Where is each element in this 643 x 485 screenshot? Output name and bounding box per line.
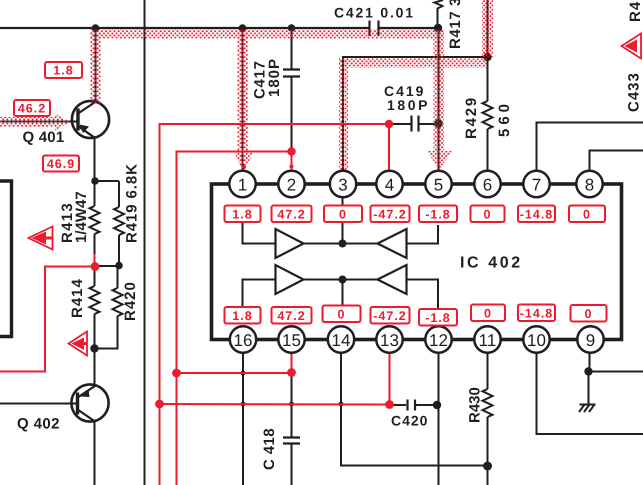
value label 46.9 <box>43 156 79 172</box>
value label 46.2 <box>14 100 50 116</box>
op-amp A3 <box>276 265 304 294</box>
value label pin15 47.2 <box>272 307 312 324</box>
value label pin14 0 <box>323 306 361 323</box>
svg-text:9: 9 <box>586 331 595 350</box>
svg-text:R419 6.8K: R419 6.8K <box>124 163 141 243</box>
red wire pin4 drop <box>388 124 390 171</box>
capacitor C421 <box>370 21 379 37</box>
capacitor C420 <box>393 400 438 411</box>
pin 11 <box>474 326 500 352</box>
wire top supply rail <box>0 27 438 29</box>
red node (291,372) <box>287 368 296 377</box>
hatch trace top rail <box>91 30 445 39</box>
red wire left loop <box>0 267 95 372</box>
red node (291,151) <box>287 147 295 155</box>
red wire y404 to C420 <box>160 403 390 406</box>
value label pin6 0 <box>471 206 505 223</box>
pin 2 <box>278 171 304 197</box>
hatch trace pin3 <box>339 59 348 171</box>
svg-text:-1.8: -1.8 <box>425 208 451 222</box>
transistor Q402 <box>71 384 108 421</box>
op-amp A4 <box>378 265 407 294</box>
value label pin9 0 <box>571 305 607 322</box>
value label pin1 1.8 <box>225 206 261 223</box>
svg-text:C433: C433 <box>626 72 643 112</box>
wire pin2 riser / capacitor C417 <box>283 28 300 148</box>
svg-text:46.9: 46.9 <box>47 157 75 171</box>
wire pin9 node <box>589 352 591 372</box>
op-amp A2 <box>378 229 407 258</box>
red wire y373 to pin15 <box>177 372 292 374</box>
value label 1.8 (Q401) <box>45 62 82 78</box>
amp wiring bottom row <box>243 280 439 310</box>
svg-text:-14.8: -14.8 <box>520 208 554 222</box>
pin 9 <box>577 326 603 352</box>
pin 15 <box>278 326 304 352</box>
svg-text:13: 13 <box>380 331 399 350</box>
svg-text:16: 16 <box>234 331 253 350</box>
junction (243,28) <box>239 24 247 32</box>
value label pin8 0 <box>569 206 605 223</box>
pin 16 <box>230 326 256 352</box>
junction (438,28) <box>434 24 442 32</box>
red node (389,124) <box>385 120 393 128</box>
svg-text:R429: R429 <box>463 96 480 139</box>
svg-text:2: 2 <box>287 176 296 195</box>
wire pin10 to right edge <box>537 352 643 434</box>
pin 5 <box>425 171 451 197</box>
value label pin13 -47.2 <box>371 307 410 324</box>
svg-text:0: 0 <box>585 307 593 321</box>
pin 4 <box>376 171 402 197</box>
wire Q401 emitter <box>94 138 96 182</box>
svg-text:0: 0 <box>338 308 346 322</box>
signal arrow near R414 <box>69 332 88 356</box>
wire long vertical bus <box>144 0 146 485</box>
IC402 package outline <box>212 184 622 340</box>
pin 8 <box>576 171 602 197</box>
hatch trace r429 node horizontal <box>339 59 487 68</box>
value label pin16 1.8 <box>225 307 261 324</box>
wire Q402 base <box>0 403 78 405</box>
junction (291,28) <box>288 24 296 32</box>
op-amp A1 <box>276 229 304 258</box>
wire pin1 riser <box>242 28 244 172</box>
node top centre <box>339 240 347 248</box>
wire pin7 to right edge <box>537 123 643 173</box>
wire Q402 collector riser <box>94 349 96 386</box>
resistor R414 <box>90 267 100 350</box>
junction (95,28) <box>92 24 100 32</box>
svg-text:4: 4 <box>385 176 394 195</box>
resistor R413 <box>90 181 100 267</box>
value label pin3 0 <box>324 206 362 223</box>
svg-text:Q 402: Q 402 <box>17 416 60 433</box>
value label pin12 -1.8 <box>419 309 457 326</box>
svg-text:46.2: 46.2 <box>18 102 46 116</box>
resistor R429 <box>483 57 493 171</box>
svg-text:-47.2: -47.2 <box>373 309 407 323</box>
pin 14 <box>328 326 354 352</box>
junction (487,57) <box>483 53 491 61</box>
pin 6 <box>474 171 500 197</box>
svg-text:180P: 180P <box>266 58 283 97</box>
wire pin14 drop to bottom node <box>341 352 488 466</box>
value label pin7 -14.8 <box>518 206 555 223</box>
hatch trace Q401 base <box>0 117 56 127</box>
svg-text:R430: R430 <box>467 387 484 423</box>
svg-text:560: 560 <box>496 100 513 137</box>
svg-text:R414: R414 <box>69 278 86 318</box>
signal arrow near R413 <box>29 227 53 250</box>
svg-text:-1.8: -1.8 <box>425 311 451 325</box>
junction R419 bottom <box>115 262 123 270</box>
value label pin10 -14.8 <box>518 305 555 322</box>
resistor R417 <box>435 0 444 28</box>
red wire R413 stub <box>94 254 96 267</box>
left neighbour IC bracket <box>0 181 12 337</box>
svg-text:15: 15 <box>282 331 301 350</box>
wire pin5 riser <box>438 28 440 172</box>
pin 3 <box>330 171 356 197</box>
svg-text:-14.8: -14.8 <box>520 307 554 321</box>
red node (159,404) <box>155 400 164 409</box>
wire pin3 net to R429 node <box>343 57 488 170</box>
hatch trace x487 riser <box>482 0 493 57</box>
capacitor C419 <box>392 116 439 132</box>
pin 10 <box>523 326 549 352</box>
red node pin3 top <box>342 172 346 176</box>
svg-text:6: 6 <box>483 176 492 195</box>
hatch trace pin1 <box>238 30 249 152</box>
svg-text:8: 8 <box>585 176 594 195</box>
svg-text:1: 1 <box>238 176 247 195</box>
value label pin5 -1.8 <box>419 206 457 223</box>
red node pin2 top <box>290 165 294 169</box>
resistor R420 <box>95 266 123 349</box>
value label pin11 0 <box>471 305 505 322</box>
svg-text:0: 0 <box>484 208 492 222</box>
transistor Q401 <box>72 101 109 138</box>
svg-text:R4: R4 <box>627 1 643 22</box>
svg-text:180P: 180P <box>387 97 430 113</box>
wire pin16 drop <box>242 352 244 485</box>
junction C420 right <box>433 401 441 409</box>
svg-text:R417 3: R417 3 <box>447 0 464 49</box>
red node (389,404) <box>385 400 394 409</box>
wire pin12 drop <box>438 352 440 485</box>
value label pin2 47.2 <box>272 206 312 223</box>
svg-text:1.8: 1.8 <box>232 208 252 222</box>
junction crossing dots <box>241 371 246 376</box>
svg-text:1.8: 1.8 <box>53 64 73 78</box>
svg-text:14: 14 <box>332 331 351 350</box>
svg-text:0: 0 <box>484 307 492 321</box>
value label pin4 -47.2 <box>371 206 410 223</box>
junction bottom node <box>483 462 492 471</box>
ground <box>579 405 596 413</box>
red wire horizontal y124 <box>160 124 390 485</box>
svg-text:5: 5 <box>434 176 443 195</box>
svg-text:1.8: 1.8 <box>232 309 252 323</box>
junction R414 bottom <box>90 344 98 352</box>
signal arrow right edge <box>622 34 642 59</box>
svg-text:C421 0.01: C421 0.01 <box>334 5 415 21</box>
red wire horizontal y151 <box>177 152 292 485</box>
wire Q401 base <box>0 121 78 123</box>
svg-text:-47.2: -47.2 <box>373 208 407 222</box>
node bottom centre <box>339 276 347 284</box>
wire pin8 to right edge <box>590 151 643 173</box>
svg-text:Q 401: Q 401 <box>23 129 65 146</box>
resistor R430 <box>483 352 493 485</box>
svg-text:1/4W47: 1/4W47 <box>73 191 90 243</box>
svg-text:R420: R420 <box>122 281 139 321</box>
wire pin15 drop / capacitor C418 <box>283 373 300 485</box>
svg-text:3: 3 <box>338 176 347 195</box>
junction C419 right <box>434 119 442 127</box>
red node (95,266) <box>91 262 100 271</box>
svg-text:7: 7 <box>532 176 541 195</box>
pin 12 <box>425 326 451 352</box>
hatch trace pin5 <box>434 30 445 152</box>
resistor R419 <box>95 181 125 266</box>
svg-text:47.2: 47.2 <box>277 208 305 222</box>
junction R413 top <box>91 177 99 185</box>
wire Q402 emitter <box>94 421 96 485</box>
red wire pin2 drop <box>291 152 293 172</box>
hatch trace Q401 collector <box>91 30 101 105</box>
svg-text:0: 0 <box>583 208 591 222</box>
svg-text:C420: C420 <box>391 413 428 429</box>
svg-text:0: 0 <box>339 208 347 222</box>
red node (176,373) <box>172 369 181 378</box>
pin 7 <box>523 171 549 197</box>
svg-text:10: 10 <box>527 331 546 350</box>
red wire pin15 riser <box>291 352 293 373</box>
pin 13 <box>376 326 402 352</box>
junction pin9 ground node <box>584 367 592 375</box>
svg-text:IC 402: IC 402 <box>460 255 523 272</box>
svg-text:47.2: 47.2 <box>277 309 305 323</box>
svg-text:12: 12 <box>429 331 448 350</box>
red wire pin13 drop <box>389 352 391 405</box>
wire hv riser x487 <box>487 0 489 57</box>
pin 1 <box>229 171 255 197</box>
svg-text:11: 11 <box>479 331 497 350</box>
wire R413/R414 node <box>95 265 120 267</box>
wire Q401 collector <box>95 28 97 102</box>
amp wiring top row <box>243 196 439 244</box>
svg-text:C 418: C 418 <box>261 428 278 470</box>
red node pin1 top <box>242 165 246 169</box>
